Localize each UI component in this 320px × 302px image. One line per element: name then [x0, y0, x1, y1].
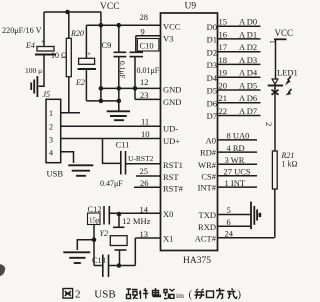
junction C10 on GND wire	[133, 86, 138, 91]
svg-text:RST#: RST#	[163, 184, 184, 194]
connector (serial plug) bars on TXD/RXD	[251, 202, 257, 230]
LED LED1 second diode mark	[272, 90, 279, 95]
wire VCC to LED1	[275, 39, 277, 79]
svg-text:4: 4	[49, 149, 53, 158]
wire D6 / pin21	[218, 102, 261, 104]
svg-text:J5: J5	[43, 90, 51, 99]
LED LED1 emission arrow 1	[285, 76, 292, 86]
svg-text:28: 28	[140, 12, 149, 22]
wire WR# / pin3	[218, 163, 258, 165]
wire D2 / pin17	[218, 51, 261, 53]
wire ACT# / pin24	[218, 237, 275, 239]
wire ground riser (crystal)	[93, 225, 95, 266]
capacitor C9 bottom plate	[114, 56, 127, 58]
capacitor C11 left wire from UD+ wire	[103, 139, 121, 164]
svg-text:100 μ: 100 μ	[25, 66, 42, 75]
svg-text:USB: USB	[94, 289, 115, 301]
wire crystal bottom rail left	[94, 265, 103, 267]
right data bus wires D0-D7	[218, 26, 261, 115]
svg-text:D3: D3	[207, 60, 217, 70]
svg-text:D5: D5	[207, 86, 217, 96]
resistor R20 top wire	[68, 12, 70, 38]
LED LED1 cathode bar	[268, 85, 283, 87]
IC U9 right pin labels	[195, 22, 218, 243]
LED LED1 emission arrow 2	[286, 88, 293, 95]
wire INT# / pin1	[218, 186, 258, 188]
wire GND pin12	[101, 87, 161, 89]
capacitor E2 top wire	[85, 25, 87, 58]
caption char FANG (method)	[216, 288, 225, 299]
op-amp/IC U9 body	[161, 13, 218, 251]
svg-text:13: 13	[140, 229, 149, 239]
svg-text:RD#: RD#	[200, 148, 217, 158]
capacitor E4 bottom wire	[39, 55, 44, 86]
svg-text:VCC: VCC	[100, 2, 120, 12]
wire UD+ : J5 pin3 to U9 pin10	[61, 138, 161, 140]
svg-text:1 INT: 1 INT	[225, 178, 246, 188]
LED LED1 triangle	[272, 79, 278, 84]
caption char SHI (style)	[227, 289, 237, 299]
svg-text:10: 10	[141, 129, 150, 139]
svg-text:im: im	[176, 291, 184, 300]
wire J5 pin4 to ground	[61, 152, 74, 163]
resistor R21 body	[272, 151, 277, 189]
junction C9 top on pin28 wire	[117, 23, 122, 28]
wire GND pin23	[135, 98, 161, 100]
resistor R20 bottom wire to J5 pin1	[68, 77, 70, 113]
wire X1 pin13	[135, 237, 160, 239]
connector J5 body	[46, 99, 61, 162]
svg-text:A D3: A D3	[239, 55, 257, 65]
svg-text:11: 11	[141, 117, 149, 127]
caption char BING (parallel)	[195, 289, 205, 299]
svg-text:C9: C9	[102, 40, 112, 50]
svg-text:D4: D4	[207, 73, 218, 83]
junction C9 on GND wire	[117, 86, 122, 91]
caption char YING (hard)	[127, 289, 138, 299]
svg-text:C10: C10	[140, 41, 154, 51]
svg-text:): )	[238, 290, 242, 301]
svg-text:USB: USB	[47, 169, 64, 179]
svg-text:D1: D1	[207, 35, 217, 45]
svg-text:CS#: CS#	[201, 171, 216, 181]
svg-text:17: 17	[219, 42, 228, 52]
svg-text:10 Ω: 10 Ω	[51, 51, 67, 60]
wire X1 drop to bottom rail	[134, 238, 136, 266]
svg-text:U-RST2: U-RST2	[128, 154, 154, 163]
svg-text:21: 21	[219, 93, 228, 103]
svg-text:Y2: Y2	[100, 229, 108, 238]
svg-text:1 kΩ: 1 kΩ	[282, 160, 298, 169]
crystal Y2 body	[110, 236, 127, 246]
wire X0 pin14	[110, 212, 161, 214]
capacitor C10 bottom wire	[134, 57, 136, 100]
capacitor C13 left plate	[102, 255, 104, 278]
svg-text:HA375: HA375	[183, 256, 211, 266]
capacitor E4 top wire	[43, 12, 45, 46]
wire pin28/VCC net horizontal	[86, 24, 160, 26]
wire D3 / pin18	[218, 63, 261, 65]
svg-text:12: 12	[140, 77, 149, 87]
crystal Y2 bottom plate	[115, 249, 127, 251]
wire A0 / pin8	[218, 139, 258, 141]
svg-text:(: (	[189, 290, 193, 301]
wire VCC rail drop to pin28 net	[100, 12, 102, 101]
svg-text:A D1: A D1	[239, 29, 257, 39]
svg-text:X1: X1	[163, 234, 173, 244]
svg-text:6: 6	[227, 217, 231, 227]
junction ground stub	[92, 237, 97, 242]
svg-text:D6: D6	[207, 98, 217, 108]
capacitor C9 top plate	[114, 51, 127, 53]
IC U9 left pin labels	[163, 22, 184, 244]
svg-text:D7: D7	[207, 111, 217, 121]
svg-text:20: 20	[219, 81, 228, 91]
svg-text:19: 19	[219, 68, 228, 78]
svg-text:C11: C11	[116, 140, 130, 150]
capacitor C9 bottom wire	[118, 57, 120, 111]
caption char DIAN (electric)	[153, 288, 161, 297]
svg-text:A0: A0	[206, 136, 216, 146]
wire CS# / pin27	[218, 175, 258, 177]
wire crystal bottom rail right	[109, 265, 135, 267]
svg-text:2: 2	[49, 122, 53, 131]
wire R21 to ACT#	[274, 189, 276, 238]
svg-text:14: 14	[140, 205, 149, 215]
svg-text:E4: E4	[25, 41, 35, 50]
capacitor C11 right plate	[125, 151, 127, 175]
svg-text:A D0: A D0	[239, 17, 257, 27]
svg-text:A D4: A D4	[239, 68, 258, 78]
svg-text:WR#: WR#	[198, 160, 217, 170]
wire LED1 to R21	[274, 84, 276, 151]
capacitor C12 left plate	[103, 206, 105, 225]
svg-text:8 UA0: 8 UA0	[227, 130, 250, 140]
svg-text:27 UCS: 27 UCS	[224, 167, 251, 177]
svg-text:U9: U9	[185, 2, 197, 12]
capacitor E4 top plate	[37, 47, 54, 52]
svg-text:RST: RST	[163, 172, 179, 182]
svg-text:220μF/16 V: 220μF/16 V	[2, 26, 42, 35]
capacitor C11 left plate	[120, 151, 122, 175]
capacitor E2 bottom wire	[85, 69, 87, 101]
capacitor C9 top wire	[118, 25, 120, 52]
wire E2 bottom to ground net	[86, 100, 118, 102]
svg-text:0.47μF: 0.47μF	[100, 179, 123, 188]
svg-text:12 MHz: 12 MHz	[122, 216, 150, 226]
caption char LU (road)	[164, 289, 175, 299]
svg-text:LED1: LED1	[277, 68, 298, 78]
svg-text:16: 16	[219, 29, 228, 39]
caption char KOU (port)	[207, 291, 214, 298]
wire RST pin25 stub	[136, 175, 161, 177]
svg-text:A D7: A D7	[239, 106, 257, 116]
right bus pin numbers and net labels	[219, 17, 258, 116]
wire J5 pin1 stub	[61, 112, 80, 114]
svg-text:26: 26	[140, 178, 149, 188]
svg-text:22: 22	[219, 106, 228, 116]
svg-text:0.01μF: 0.01μF	[137, 66, 160, 75]
power VCC stub bar (right)	[274, 38, 287, 40]
ground (below J5 pin4)	[68, 165, 93, 176]
junction crystal bottom on rail	[117, 263, 122, 268]
wire D0 / pin15	[218, 25, 261, 27]
wire RXD / pin6	[218, 225, 251, 227]
caption char TU (figure)	[63, 289, 73, 299]
svg-text:25: 25	[140, 166, 149, 176]
svg-text:VCC: VCC	[163, 22, 181, 32]
svg-text:GND: GND	[163, 85, 181, 95]
svg-text:INT#: INT#	[198, 183, 217, 193]
junction VCC drop on pin28 wire	[99, 23, 104, 28]
ground (below C9)	[107, 111, 130, 120]
svg-text:TXD: TXD	[199, 210, 216, 220]
junction VCC-drop/E2 riser on pin12 wire	[99, 86, 104, 91]
capacitor C10 top plate	[130, 51, 144, 53]
junction R20 top on VCC rail	[65, 10, 70, 15]
junction ground column on E2 net	[117, 99, 122, 104]
ground (crystal)	[63, 252, 90, 263]
svg-text:UD+: UD+	[163, 136, 180, 146]
svg-text:1: 1	[49, 109, 53, 118]
wire UD- : J5 pin2 to U9 pin11	[61, 125, 161, 127]
capacitor C13 right plate	[108, 255, 110, 278]
wire VCC top rail	[44, 11, 101, 13]
svg-text:+: +	[41, 38, 45, 46]
capacitor C12 boxed value 15p	[88, 213, 101, 225]
wire V3 pin9	[136, 35, 161, 37]
wire RST1 pin (from C11)	[126, 163, 161, 165]
capacitor C12 right plate	[108, 206, 110, 225]
svg-text:2: 2	[75, 289, 81, 301]
svg-text:UD-: UD-	[163, 124, 178, 134]
svg-text:A D5: A D5	[239, 81, 257, 91]
svg-text:24: 24	[225, 228, 234, 238]
svg-text:A D2: A D2	[239, 42, 257, 52]
svg-text:ACT#: ACT#	[195, 233, 217, 243]
svg-text:18: 18	[219, 55, 228, 65]
svg-text:15p: 15p	[89, 217, 100, 225]
svg-text:RST1: RST1	[163, 160, 183, 170]
wire RD# / pin4	[218, 151, 258, 153]
resistor R20 body	[66, 38, 71, 76]
svg-text:X0: X0	[163, 209, 173, 219]
svg-text:3: 3	[49, 135, 53, 144]
ground (left of E4, rotated)	[31, 76, 37, 97]
svg-text:D0: D0	[207, 22, 217, 32]
svg-text:5: 5	[227, 205, 231, 215]
crystal Y2 top wire	[118, 214, 120, 227]
svg-text:RXD: RXD	[198, 222, 216, 232]
svg-text:23: 23	[140, 90, 149, 100]
svg-text:GND: GND	[163, 97, 181, 107]
wire D7 / pin22	[218, 115, 261, 117]
svg-text:+: +	[87, 50, 91, 58]
wire RST# pin26 stub	[134, 186, 161, 188]
crystal Y2 bottom wire	[119, 250, 121, 266]
capacitor C10 bottom plate	[130, 56, 144, 58]
svg-text:4 RD: 4 RD	[227, 143, 245, 153]
wire D5 / pin20	[218, 89, 261, 91]
svg-text:VCC: VCC	[275, 28, 294, 38]
capacitor E2 top plate	[79, 58, 95, 64]
svg-text:V3: V3	[163, 34, 173, 44]
caption char JIAN (piece)	[140, 288, 149, 299]
svg-text:E2: E2	[75, 78, 85, 87]
capacitor E2 bottom plate	[78, 68, 97, 70]
wire TXD / pin5	[218, 214, 251, 216]
capacitor C10 boxed designator	[137, 39, 159, 52]
junction crystal tap on X0 wire	[117, 212, 122, 217]
capacitor C10 top wire from V3 pin9	[135, 36, 137, 52]
junction E2 net with VCC drop	[99, 99, 104, 104]
crystal Y2 top plate	[113, 226, 125, 228]
wire D4 / pin19	[218, 76, 261, 78]
scan smudge bottom-left	[0, 264, 5, 276]
wire ground stub left	[77, 240, 94, 250]
svg-text:D2: D2	[207, 47, 217, 57]
svg-text:15: 15	[219, 17, 228, 27]
svg-text:R20: R20	[70, 29, 84, 38]
svg-text:2: 2	[264, 122, 274, 126]
svg-text:3 WR: 3 WR	[225, 155, 245, 165]
capacitor E4 bottom plate	[35, 54, 56, 56]
caption: figure 2 USB hardware circuit (parallel mode)	[63, 288, 242, 301]
svg-text:9: 9	[141, 27, 145, 37]
wire D1 / pin16	[218, 38, 261, 40]
svg-text:A D6: A D6	[239, 93, 257, 103]
